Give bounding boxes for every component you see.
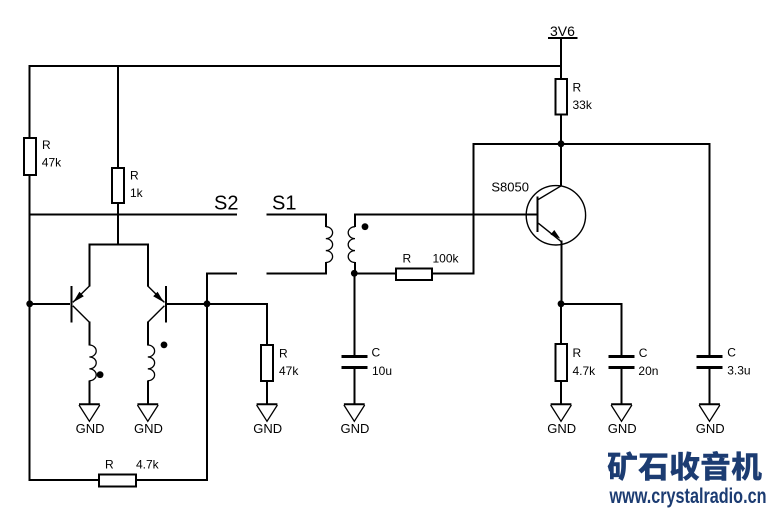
svg-text:C: C xyxy=(639,346,648,360)
svg-text:C: C xyxy=(372,346,381,360)
svg-text:GND: GND xyxy=(341,421,370,436)
svg-text:R: R xyxy=(130,169,139,183)
svg-text:R: R xyxy=(42,138,51,152)
svg-text:www.crystalradio.cn: www.crystalradio.cn xyxy=(609,484,767,508)
svg-text:10u: 10u xyxy=(372,364,392,378)
svg-text:4.7k: 4.7k xyxy=(136,458,160,472)
svg-text:S8050: S8050 xyxy=(491,179,529,194)
svg-text:3.3u: 3.3u xyxy=(727,364,750,378)
svg-text:GND: GND xyxy=(253,421,282,436)
svg-text:1k: 1k xyxy=(130,186,144,200)
svg-text:47k: 47k xyxy=(279,364,299,378)
svg-text:GND: GND xyxy=(134,421,163,436)
svg-text:S1: S1 xyxy=(272,193,296,215)
svg-text:20n: 20n xyxy=(638,364,658,378)
svg-text:R: R xyxy=(105,457,114,471)
svg-text:4.7k: 4.7k xyxy=(573,364,597,378)
svg-text:GND: GND xyxy=(696,421,725,436)
svg-text:R: R xyxy=(403,252,412,266)
svg-text:GND: GND xyxy=(547,421,576,436)
svg-text:C: C xyxy=(727,345,736,359)
svg-text:R: R xyxy=(279,347,288,361)
svg-text:R: R xyxy=(573,346,582,360)
svg-text:GND: GND xyxy=(608,421,637,436)
svg-text:100k: 100k xyxy=(433,252,460,266)
svg-text:S2: S2 xyxy=(214,193,238,215)
svg-text:33k: 33k xyxy=(573,98,593,112)
svg-text:GND: GND xyxy=(76,421,105,436)
svg-text:47k: 47k xyxy=(42,156,62,170)
svg-text:R: R xyxy=(573,81,582,95)
svg-text:3V6: 3V6 xyxy=(550,23,575,39)
